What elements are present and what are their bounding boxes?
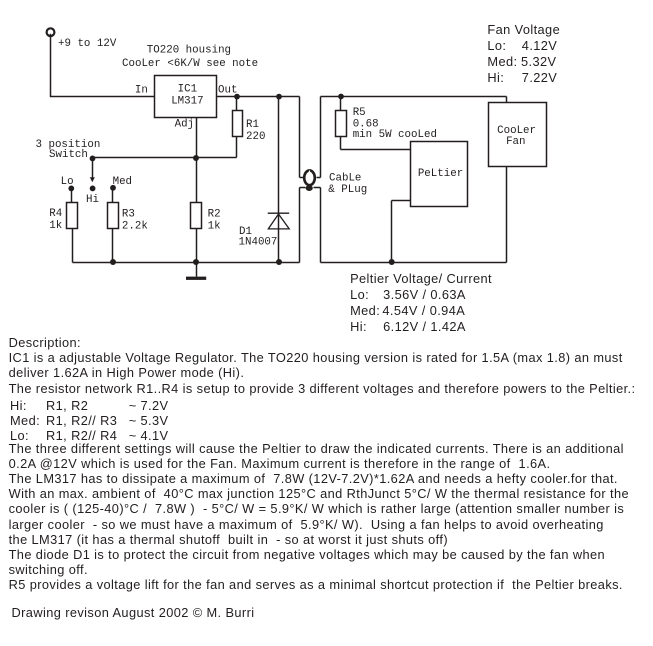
svg-text:+9 to 12V: +9 to 12V [58, 38, 117, 50]
svg-text:Med: Med [113, 176, 132, 188]
svg-text:IC1: IC1 [178, 84, 197, 96]
svg-text:Hi: Hi [86, 194, 99, 206]
svg-text:R1: R1 [246, 119, 259, 131]
svg-text:1N4007: 1N4007 [239, 236, 278, 248]
svg-text:Adj: Adj [175, 118, 194, 130]
svg-text:LM317: LM317 [171, 96, 203, 108]
svg-text:1k: 1k [49, 220, 62, 232]
svg-text:Lo: Lo [61, 176, 74, 188]
svg-text:R3: R3 [122, 209, 135, 221]
svg-text:CooLer <6K/W see note: CooLer <6K/W see note [122, 58, 258, 70]
svg-text:TO220 housing: TO220 housing [147, 44, 231, 56]
svg-text:1k: 1k [208, 220, 221, 232]
svg-text:CabLe: CabLe [329, 172, 361, 184]
svg-text:In: In [135, 85, 148, 97]
svg-text:2.2k: 2.2k [122, 220, 148, 232]
svg-text:PeLtier: PeLtier [418, 168, 463, 180]
svg-text:220: 220 [246, 131, 265, 143]
svg-text:& PLug: & PLug [328, 184, 367, 196]
svg-text:R5: R5 [353, 107, 366, 119]
svg-text:R2: R2 [208, 209, 221, 221]
svg-text:Fan: Fan [506, 136, 525, 148]
svg-text:Out: Out [218, 85, 237, 97]
svg-text:R4: R4 [49, 208, 62, 220]
svg-text:min 5W cooLed: min 5W cooLed [353, 129, 437, 141]
svg-text:Switch: Switch [49, 149, 88, 161]
